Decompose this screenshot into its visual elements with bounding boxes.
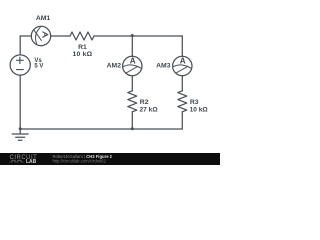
svg-text:AM1: AM1 <box>36 15 51 22</box>
svg-text:AM2: AM2 <box>107 62 122 69</box>
ammeter AM2 <box>123 56 142 75</box>
svg-text:27 kΩ: 27 kΩ <box>140 106 159 113</box>
footer bar <box>0 153 220 165</box>
wire middle branch top <box>131 36 133 56</box>
svg-text:R3: R3 <box>190 99 199 106</box>
resistor R2 <box>128 91 137 112</box>
ammeter AM3 <box>173 56 192 75</box>
svg-text:LAB: LAB <box>26 159 37 165</box>
ammeter AM1 <box>31 26 50 45</box>
junction node top middle <box>131 34 134 37</box>
svg-text:A: A <box>130 57 136 66</box>
junction node bottom left <box>19 127 22 130</box>
svg-text:10 kΩ: 10 kΩ <box>190 106 209 113</box>
wire top rail <box>20 35 182 37</box>
wire left branch top <box>19 36 21 55</box>
resistor R3 <box>178 91 187 112</box>
svg-text:A: A <box>180 57 186 66</box>
svg-text:http://circuitlab.com/c/rdnd62: http://circuitlab.com/c/rdnd62 <box>53 158 107 163</box>
wire R3 to bottom rail <box>181 112 183 129</box>
svg-text:10 kΩ: 10 kΩ <box>73 51 93 58</box>
junction node bottom middle <box>131 127 134 130</box>
footer logo waveform <box>10 160 24 162</box>
wire R2 to bottom rail <box>131 112 133 129</box>
resistor R1 <box>70 32 94 40</box>
svg-text:5 V: 5 V <box>34 64 43 70</box>
wire left branch bottom <box>19 75 21 129</box>
svg-text:AM3: AM3 <box>156 62 171 69</box>
wire AM2 to R2 <box>131 76 133 91</box>
ground <box>19 129 21 134</box>
wire right branch top <box>181 36 183 56</box>
wire bottom rail <box>20 128 182 130</box>
svg-text:R2: R2 <box>140 99 149 106</box>
svg-text:R1: R1 <box>78 44 87 51</box>
wire AM3 to R3 <box>181 76 183 91</box>
voltage source Vs <box>10 55 30 75</box>
